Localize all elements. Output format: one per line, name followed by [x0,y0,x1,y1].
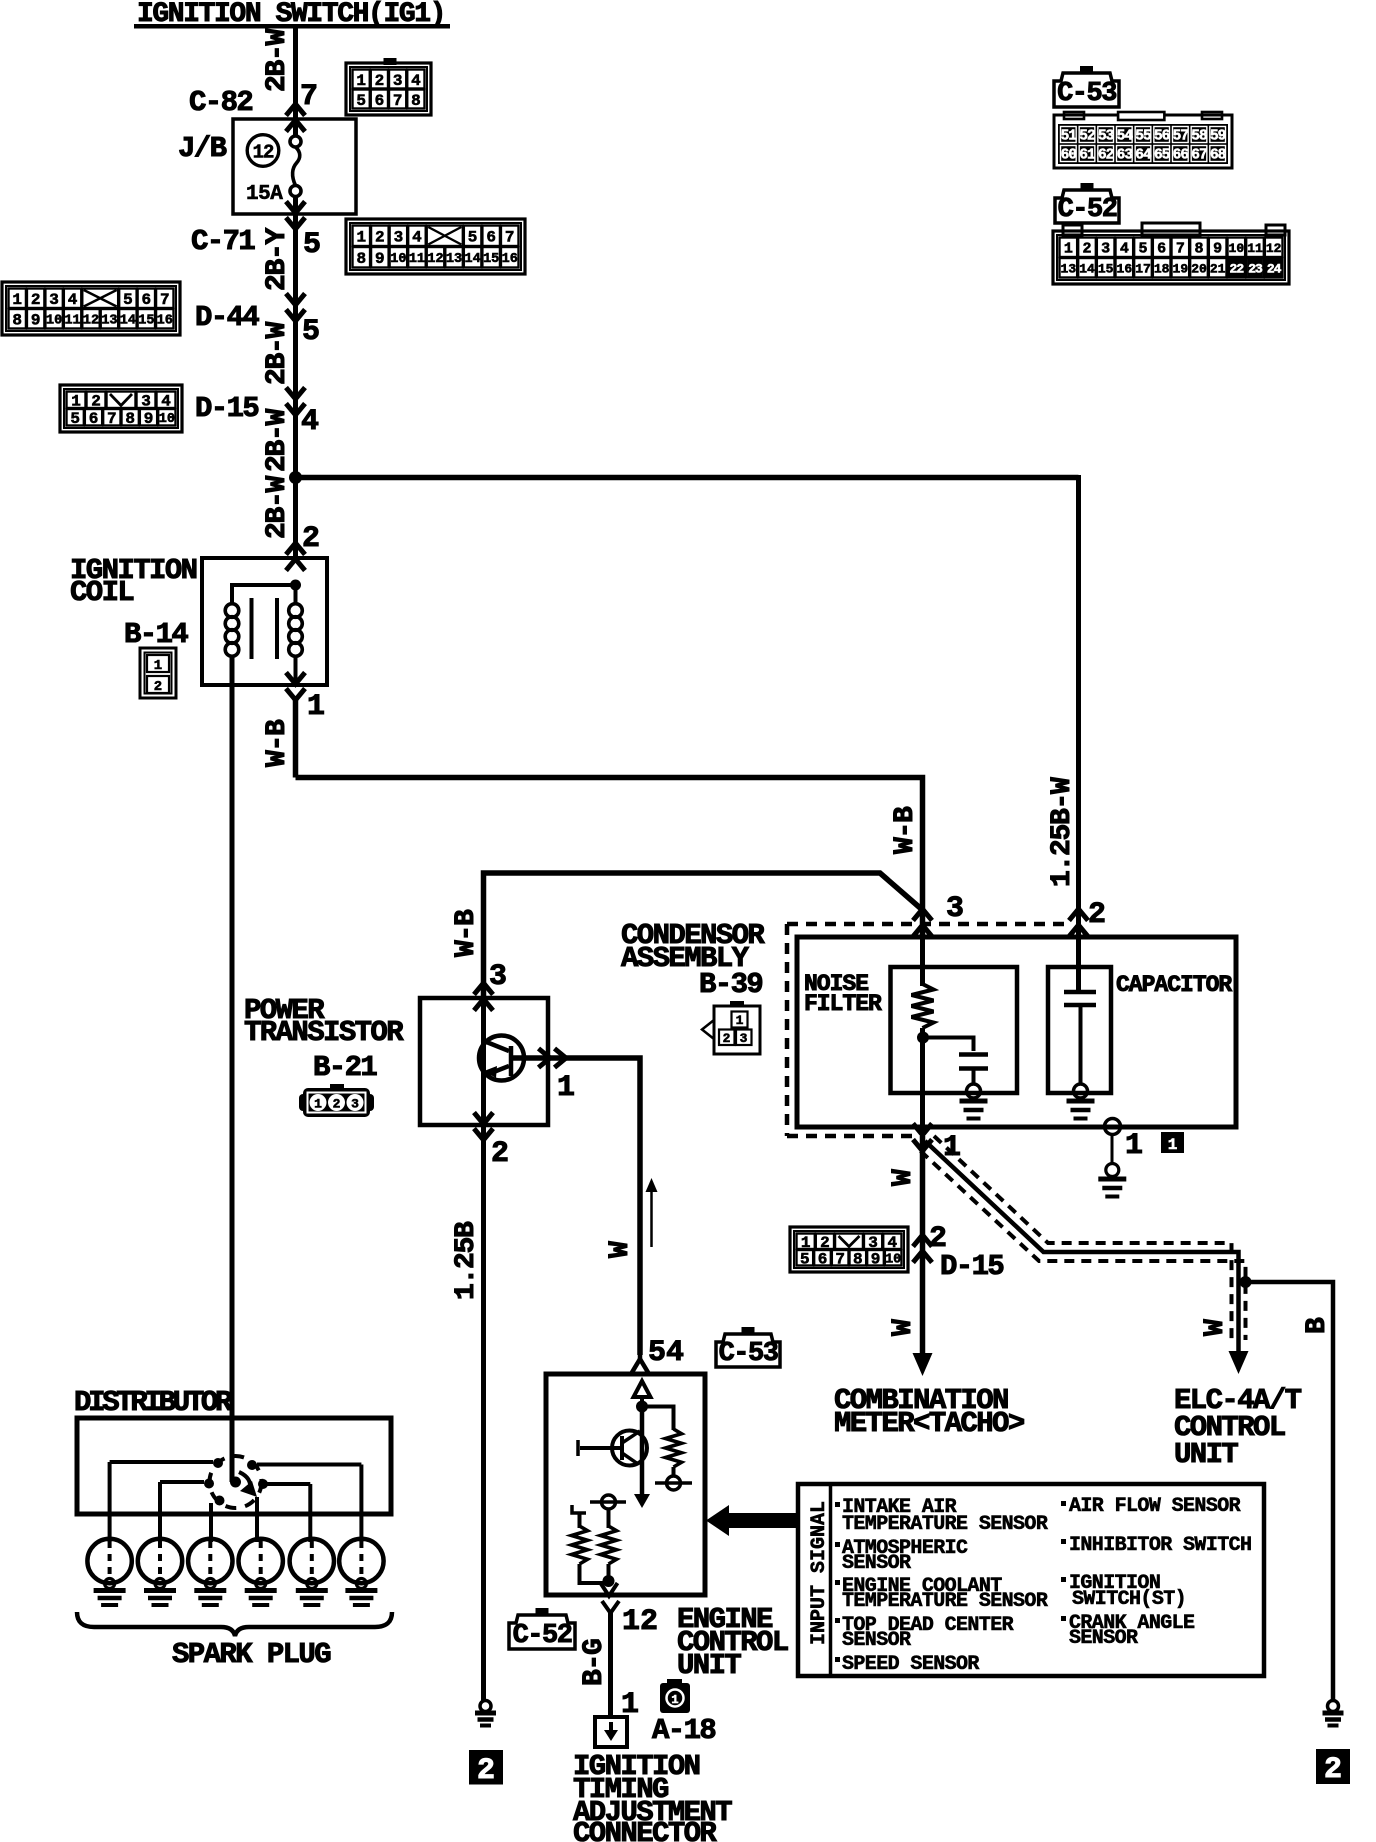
svg-text:11: 11 [64,314,80,329]
wire 2B-W junction to ignition coil [293,475,298,558]
ECU pin 12 fork [602,1601,619,1613]
ECU divider junction node [603,1575,615,1587]
svg-text:D-15: D-15 [195,392,258,425]
transistor Q1 emitter lead [486,1066,509,1075]
svg-text:53: 53 [1098,128,1114,144]
svg-text:C-52: C-52 [513,1621,572,1651]
arrow to combination meter [913,1353,933,1376]
svg-text:TRANSISTOR: TRANSISTOR [244,1016,404,1049]
table item ENGINE COOLANT TEMPERATURE SENSOR [835,1580,840,1585]
wire 1.25B-W down right side [1076,475,1081,937]
svg-text:3: 3 [351,1097,359,1112]
input signal arrow into ECU [727,1513,798,1528]
fuse number circle 12 [247,135,279,167]
rotor contact left [204,1479,214,1489]
svg-text:64: 64 [1135,147,1152,163]
svg-text:54: 54 [648,1336,684,1370]
svg-text:22: 22 [1230,261,1245,276]
svg-text:C-53: C-53 [719,1339,778,1369]
svg-text:C-71: C-71 [191,225,255,258]
svg-text:B-14: B-14 [124,618,188,651]
wire R1 to C1 [923,1038,974,1052]
svg-text:24: 24 [1267,261,1282,276]
connector D-15 crossing chevrons [286,404,305,416]
transistor Q1 collector lead [484,1041,509,1051]
power transistor pin 3 chevrons [474,983,493,995]
junction node 2B-W [289,471,302,484]
svg-text:52: 52 [1079,128,1095,144]
ignition coil pin 1 chevrons [286,689,305,701]
svg-text:1.25B: 1.25B [451,1221,482,1300]
transistor Q1 circle [479,1036,524,1081]
svg-text:15: 15 [138,314,154,329]
svg-text:W-B: W-B [890,806,921,854]
svg-text:13: 13 [1061,261,1077,276]
connector D-15 crossing chevrons (lower) [913,1235,932,1247]
case ground terminal circle [1106,1164,1119,1177]
svg-text:1: 1 [154,658,162,674]
wire 2B-W from ignition switch down to J/B [293,26,298,137]
ignition coil internal node [290,580,301,591]
table item INTAKE AIR TEMPERATURE SENSOR [835,1502,840,1507]
svg-text:3: 3 [946,892,964,926]
capacitor C1 plates [959,1052,988,1057]
ECU pin 54 fork [631,1359,649,1374]
svg-text:5: 5 [468,229,478,247]
svg-text:6: 6 [375,92,385,110]
capacitor ground terminal circle [1074,1084,1088,1098]
shielded cable shield dashed lower [921,1151,1246,1340]
svg-text:3: 3 [1101,241,1110,258]
svg-text:3: 3 [489,960,507,994]
svg-text:7: 7 [393,92,403,110]
coil primary winding [225,604,239,618]
svg-text:2: 2 [477,1754,495,1788]
svg-text:18: 18 [1154,261,1170,276]
svg-text:67: 67 [1191,147,1207,163]
svg-text:60: 60 [1061,147,1077,163]
svg-text:10: 10 [46,314,62,329]
ground (capacitor) [1067,1099,1095,1104]
ignition coil pin 2 chevrons [286,543,305,555]
svg-text:8: 8 [12,312,22,330]
connector A-18 icon [667,1679,682,1685]
svg-text:1: 1 [1125,1129,1143,1163]
svg-text:UNIT: UNIT [1174,1438,1238,1471]
svg-text:63: 63 [1117,147,1133,163]
resistor R3 stub terminal [572,1505,586,1513]
svg-text:1: 1 [356,72,366,90]
transistor Q1 base bar [509,1046,514,1076]
svg-text:10: 10 [390,252,406,267]
spark plug 1 [87,1539,131,1583]
svg-text:14: 14 [465,252,481,267]
connector D-15 icon (10-pin) [60,385,182,432]
svg-text:3: 3 [740,1031,748,1046]
svg-text:DISTRIBUTOR: DISTRIBUTOR [74,1386,233,1419]
svg-text:65: 65 [1154,147,1170,163]
svg-text:19: 19 [1173,261,1189,276]
table item SPEED SENSOR [835,1657,840,1662]
svg-text:12: 12 [427,252,443,267]
wire 2B-W C-71 to D-44 [293,300,298,405]
condensor pin 3 chevrons [913,909,932,921]
power transistor pin 1 chevrons [555,1049,567,1068]
svg-text:AIR FLOW SENSOR: AIR FLOW SENSOR [1069,1495,1241,1518]
resistor R1 (noise filter) [912,984,934,1028]
svg-text:B-21: B-21 [313,1051,377,1084]
junction block J/B box [233,119,356,214]
svg-text:9: 9 [31,312,41,330]
svg-text:SWITCH(ST): SWITCH(ST) [1072,1588,1186,1611]
svg-text:7: 7 [835,1251,845,1269]
svg-text:2B-W: 2B-W [262,28,293,92]
svg-text:12: 12 [253,142,274,164]
ECU pin 12 chevron (inside) [601,1583,618,1596]
svg-text:54: 54 [1117,128,1134,144]
connector B-39 icon (3-pin) [730,1001,744,1007]
svg-text:5: 5 [356,92,366,110]
svg-text:2: 2 [31,291,41,309]
svg-text:6: 6 [818,1251,828,1269]
connector C-53 badge (lower) [742,1327,755,1335]
distributor bus B right [267,1482,310,1486]
condensor pin 1 chevrons [913,1140,932,1152]
svg-text:TEMPERATURE SENSOR: TEMPERATURE SENSOR [842,1590,1048,1613]
connector C-82 crossing chevrons [286,104,305,116]
svg-text:SPEED SENSOR: SPEED SENSOR [842,1653,979,1676]
svg-text:7: 7 [505,229,515,247]
rotor contact upper-left [213,1458,223,1468]
spark plug 4 [239,1539,283,1583]
distributor bus A left [110,1460,213,1464]
coil secondary winding [289,604,303,618]
table item AIR FLOW SENSOR [1061,1501,1066,1506]
ECU base input circle [602,1495,616,1509]
svg-text:8: 8 [125,410,135,428]
wire W-B coil pin1 down [293,697,299,778]
svg-text:5: 5 [123,291,133,309]
wire W condensor to D-15 [920,1136,926,1356]
svg-text:16: 16 [1117,261,1133,276]
capacitor C2 lead [1079,1005,1083,1085]
svg-text:51: 51 [1061,128,1078,144]
svg-text:2: 2 [333,1097,341,1112]
svg-text:1: 1 [736,1013,744,1028]
svg-text:D-15: D-15 [940,1250,1003,1283]
svg-text:4: 4 [1120,241,1129,258]
table item CRANK ANGLE SENSOR [1061,1616,1066,1621]
ground for 1.25B wire [480,1701,491,1712]
svg-text:2B-W: 2B-W [262,408,293,472]
svg-text:16: 16 [157,314,173,329]
svg-text:58: 58 [1191,128,1207,144]
transistor Q2 (ECU) [612,1431,647,1466]
distributor bus A right [257,1463,361,1467]
svg-text:INPUT SIGNAL: INPUT SIGNAL [808,1501,831,1645]
svg-text:4: 4 [411,72,421,90]
svg-text:56: 56 [1154,128,1170,144]
svg-text:12: 12 [83,314,99,329]
svg-text:66: 66 [1173,147,1189,163]
ground reference box 1 [1161,1132,1184,1153]
svg-text:57: 57 [1173,128,1189,144]
svg-text:4: 4 [68,291,78,309]
power transistor output wire [511,1058,640,1355]
svg-text:C-53: C-53 [1057,79,1116,109]
table item TOP DEAD CENTER SENSOR [835,1618,840,1623]
svg-text:1: 1 [12,291,22,309]
ground for shield B wire [1328,1701,1339,1712]
svg-text:B-39: B-39 [699,968,762,1001]
connector B-21 icon (3-pin) [330,1084,344,1091]
capacitor C2 plates [1064,990,1096,995]
condensor case pin circle [1105,1119,1121,1135]
svg-text:14: 14 [120,314,136,329]
svg-text:CAPACITOR: CAPACITOR [1116,972,1232,998]
svg-text:2: 2 [154,679,162,695]
svg-text:CONNECTOR: CONNECTOR [573,1817,717,1842]
svg-text:1: 1 [1064,241,1073,258]
svg-text:15: 15 [1098,261,1114,276]
connector C-52 badge (top) [1081,183,1094,191]
wire B shield to ground [1246,1282,1334,1701]
ground (condensor case) [1098,1177,1126,1182]
rotor contact lower-left [215,1496,225,1506]
svg-text:20: 20 [1191,261,1207,276]
spark plug lead 3 [209,1503,213,1542]
svg-text:55: 55 [1135,128,1151,144]
table item INHIBITOR SWITCH [1061,1539,1066,1544]
wire into noise filter [920,930,925,986]
wire 2B-W branch to right (horizontal) [293,475,1079,481]
svg-text:4: 4 [412,229,422,247]
page reference 2 (right) [1316,1749,1350,1784]
connector D-15 icon lower (10-pin) [790,1227,908,1272]
svg-text:7: 7 [1176,241,1185,258]
resistor R2 (ECU pullup) [666,1429,682,1467]
svg-text:A-18: A-18 [652,1714,715,1747]
distributor bus B left [160,1480,204,1484]
ECU divider bottom wire [580,1564,609,1583]
svg-text:B-G: B-G [579,1639,610,1686]
shielded cable shield dashed upper [934,1136,1232,1340]
ignition timing adjustment connector box [595,1717,627,1747]
rotor arm arrow [239,1472,250,1489]
svg-text:5: 5 [800,1251,810,1269]
svg-text:J/B: J/B [178,132,227,165]
ECU internal collector wire [640,1405,645,1496]
coil primary top lead [232,585,293,604]
svg-text:W: W [1200,1319,1231,1336]
ground (noise filter) [960,1099,988,1104]
connector C-52 badge (lower) [536,1608,549,1616]
wire 2B-Y J/B to C-71 [293,197,298,310]
svg-text:COIL: COIL [70,576,133,609]
connector C-71 icon (16-pin) [346,219,525,274]
svg-text:W-B: W-B [451,909,482,957]
svg-text:1: 1 [356,229,366,247]
fuse 15A symbol [290,136,301,147]
svg-text:12: 12 [622,1605,658,1639]
svg-text:D-44: D-44 [195,301,259,334]
svg-text:B: B [1302,1317,1333,1334]
svg-text:SENSOR: SENSOR [1069,1627,1138,1650]
table item IGNITION SWITCH(ST) [1061,1577,1066,1582]
svg-text:13: 13 [446,252,462,267]
wire to divider resistors [607,1509,611,1528]
connector D-44 crossing chevrons [286,310,305,322]
svg-text:2B-W: 2B-W [262,475,293,539]
svg-text:TEMPERATURE SENSOR: TEMPERATURE SENSOR [842,1513,1048,1536]
condensor pin 2 chevrons [1069,909,1088,921]
svg-text:23: 23 [1248,261,1263,276]
svg-text:3: 3 [49,291,59,309]
svg-text:9: 9 [871,1251,881,1269]
svg-text:W-B: W-B [262,719,293,767]
resistor R4 (ECU divider) [601,1526,617,1564]
svg-text:62: 62 [1098,147,1114,163]
svg-text:C-82: C-82 [189,86,252,119]
svg-text:W: W [605,1241,636,1258]
page reference 2 (left) [469,1750,503,1785]
svg-text:6: 6 [486,229,496,247]
shield junction node [1240,1276,1252,1288]
svg-text:2: 2 [1082,241,1091,258]
svg-text:1.25B-W: 1.25B-W [1047,777,1078,887]
svg-text:10: 10 [159,412,175,427]
svg-text:12: 12 [1266,241,1282,256]
svg-text:2: 2 [1088,898,1106,932]
svg-text:21: 21 [1210,261,1226,276]
connector C-53 icon (18-pin) [1054,115,1232,168]
svg-text:10: 10 [885,1253,901,1268]
svg-text:2: 2 [1324,1753,1342,1787]
svg-text:8: 8 [356,250,366,268]
svg-text:1: 1 [671,1693,678,1707]
svg-text:14: 14 [1079,261,1095,276]
arrow to ELC-4A/T [1229,1351,1249,1374]
ECU resistor output circle [672,1467,676,1476]
ECU supply arrow (open triangle) [634,1381,651,1397]
condensor assembly inner box [797,937,1236,1127]
condensor case ground wire [1111,1134,1114,1164]
spark plug lead 1 [108,1462,112,1542]
connector B-14 icon (2-pin) [140,648,176,698]
wire 2B-W D-44 to D-15 [293,395,298,478]
wire primary to distributor [230,656,235,1482]
wire W-B horizontal to condensor [296,778,923,936]
ignition coil box [202,558,327,685]
power transistor pin 2 chevrons [474,1129,493,1141]
signal direction arrow (W wire) [650,1188,653,1247]
svg-text:5: 5 [303,228,321,262]
svg-text:6: 6 [142,291,152,309]
power transistor box B-21 [420,998,548,1125]
input signal table box [798,1484,1264,1676]
connector C-82 icon (8-pin) [384,58,397,65]
ECU internal node [640,1397,644,1405]
rotor contact right [258,1479,268,1489]
title underline [134,24,450,29]
rotor contact upper-right [247,1460,257,1470]
spark plug lead 4 [255,1497,259,1542]
spark plug group brace [77,1612,392,1636]
input signal table divider [829,1484,833,1676]
svg-text:61: 61 [1079,147,1096,163]
condensor assembly dashed boundary [787,922,1072,927]
connector C-71 crossing chevrons [286,218,305,230]
svg-text:17: 17 [1135,261,1151,276]
svg-text:6: 6 [89,410,99,428]
svg-text:5: 5 [1138,241,1147,258]
svg-text:13: 13 [101,314,117,329]
coil core lines [250,598,254,659]
spark plug lead 5 [308,1484,312,1542]
svg-text:2B-Y: 2B-Y [262,227,293,291]
svg-text:7: 7 [107,410,117,428]
spark plug 6 [339,1539,383,1583]
svg-text:SENSOR: SENSOR [842,1629,911,1652]
svg-text:3: 3 [393,72,403,90]
wire noise filter through [920,1028,925,1136]
wire through power transistor [481,998,486,1125]
svg-text:8: 8 [853,1251,863,1269]
spark plug 5 [290,1539,334,1583]
ECU pullup branch [642,1407,674,1431]
svg-text:8: 8 [411,92,421,110]
table item ATMOSPHERIC SENSOR [835,1542,840,1547]
svg-text:8: 8 [1194,241,1203,258]
svg-text:59: 59 [1210,128,1226,144]
engine control unit box [546,1374,705,1595]
spark plug lead 2 [158,1482,162,1542]
spark plug 2 [138,1539,182,1583]
svg-text:1: 1 [314,1097,322,1112]
svg-text:5: 5 [302,315,320,349]
svg-text:15A: 15A [246,183,283,206]
spark plug 3 [188,1539,232,1583]
shielded cable core wire [925,1141,1239,1352]
svg-text:1: 1 [1168,1136,1178,1154]
svg-text:2: 2 [491,1137,509,1171]
connector C-52 icon (24-pin) [1063,225,1082,235]
svg-text:2: 2 [375,229,385,247]
svg-text:W: W [888,1319,919,1336]
coil secondary top lead [294,585,298,604]
distributor rotor center [230,1477,241,1488]
coil secondary bottom lead [294,656,298,686]
svg-text:FILTER: FILTER [804,991,882,1017]
svg-text:SENSOR: SENSOR [842,1552,911,1575]
svg-text:2B-W: 2B-W [262,321,293,385]
distributor box [77,1418,391,1514]
svg-text:3: 3 [394,229,404,247]
svg-text:11: 11 [1247,241,1263,256]
svg-text:UNIT: UNIT [677,1649,741,1682]
wire 1.25B down from power transistor [481,1125,486,1701]
connector D-44 icon (16-pin) [2,282,180,335]
noise filter junction node [917,1032,929,1044]
svg-text:7: 7 [160,291,170,309]
spark plug lead 6 [359,1465,363,1543]
svg-text:2: 2 [723,1031,731,1046]
capacitor C1 lead [972,1069,976,1085]
svg-text:9: 9 [144,410,154,428]
svg-text:9: 9 [1213,241,1222,258]
svg-text:68: 68 [1210,147,1226,163]
svg-text:1: 1 [557,1071,575,1105]
